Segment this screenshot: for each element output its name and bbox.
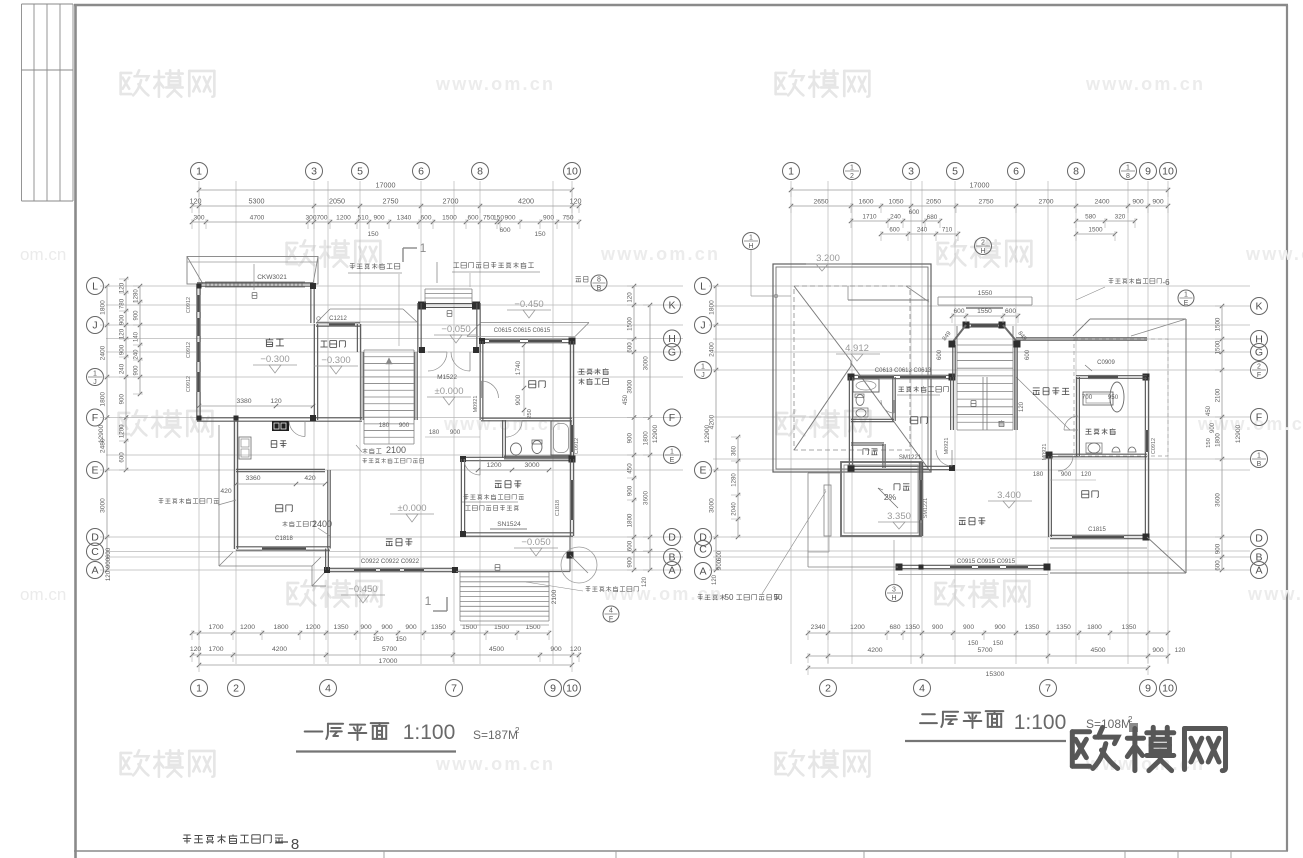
svg-text:900: 900 xyxy=(515,394,522,405)
svg-text:900: 900 xyxy=(627,557,634,568)
roof small circle marker xyxy=(774,294,778,298)
entry steps above porch xyxy=(425,288,472,290)
bedroom walls xyxy=(479,341,481,420)
svg-text:1800: 1800 xyxy=(100,300,107,315)
svg-text:9: 9 xyxy=(1145,166,1151,178)
stairwell2 rail xyxy=(982,377,984,430)
svg-text:1710: 1710 xyxy=(862,214,877,221)
svg-text:3: 3 xyxy=(908,166,914,178)
svg-text:F: F xyxy=(669,412,675,424)
svg-text:900: 900 xyxy=(381,624,393,631)
svg-text:900: 900 xyxy=(119,314,126,325)
svg-text:E: E xyxy=(1184,300,1189,307)
svg-text:1: 1 xyxy=(701,364,705,371)
svg-text:E: E xyxy=(670,457,675,464)
living2 bottom wall windows C0915 xyxy=(898,564,1048,566)
svg-text:17000: 17000 xyxy=(376,181,396,190)
svg-text:L: L xyxy=(92,281,98,293)
dim col left1 left plan xyxy=(106,286,108,570)
drain note text xyxy=(698,594,726,600)
svg-text:2400: 2400 xyxy=(312,519,332,529)
svg-text:120: 120 xyxy=(570,646,582,653)
svg-text:M0921: M0921 xyxy=(944,438,950,455)
bathroom A door arc xyxy=(506,421,522,437)
svg-text:1600: 1600 xyxy=(858,199,873,206)
svg-text:1800: 1800 xyxy=(643,431,650,446)
axis circles top left plan xyxy=(191,163,208,180)
svg-text:M1522: M1522 xyxy=(437,374,457,381)
svg-text:700: 700 xyxy=(1082,394,1093,401)
svg-text:3380: 3380 xyxy=(236,398,251,405)
pavilion roof hips xyxy=(794,286,851,361)
svg-text:360: 360 xyxy=(732,445,738,456)
svg-text:12900: 12900 xyxy=(1235,425,1242,444)
balcony slope arrow xyxy=(878,488,898,508)
svg-text:1: 1 xyxy=(670,449,674,456)
porch down label xyxy=(447,311,452,317)
svg-text:SM1221: SM1221 xyxy=(923,498,929,519)
svg-text:900: 900 xyxy=(504,215,515,222)
svg-text:2: 2 xyxy=(850,173,854,180)
svg-text:S=108M: S=108M xyxy=(1086,717,1131,731)
title second floor plan xyxy=(920,714,937,723)
svg-text:900: 900 xyxy=(119,394,126,405)
svg-text:4200: 4200 xyxy=(518,197,534,206)
svg-text:10: 10 xyxy=(566,683,578,695)
drain pipe xyxy=(824,485,831,536)
bathroomC note top xyxy=(1109,278,1162,283)
bedroom3 walls xyxy=(1048,456,1050,537)
circle 4/F callout xyxy=(603,606,619,622)
bedroom2 door M0921 xyxy=(936,450,952,466)
grid vertical lines right plan xyxy=(790,181,792,664)
svg-text:3: 3 xyxy=(311,166,317,178)
activity label xyxy=(495,480,522,488)
bedroom top wall with windows xyxy=(481,338,573,340)
activity room walls xyxy=(460,459,462,536)
svg-text:8: 8 xyxy=(597,277,601,284)
svg-text:F: F xyxy=(1257,372,1261,379)
terrace roofline above worker room xyxy=(317,309,330,322)
svg-text:2400: 2400 xyxy=(100,345,107,360)
svg-text:3.200: 3.200 xyxy=(816,253,840,264)
note brick steps 2 xyxy=(362,458,423,463)
svg-text:900: 900 xyxy=(543,215,554,222)
svg-text:D: D xyxy=(668,532,676,544)
svg-text:900: 900 xyxy=(134,310,140,321)
svg-text:900: 900 xyxy=(1215,543,1222,554)
svg-text:2040: 2040 xyxy=(732,502,738,516)
svg-text:1050: 1050 xyxy=(888,199,903,206)
outdoor stair label down xyxy=(495,565,500,571)
svg-text:140: 140 xyxy=(134,331,140,342)
svg-text:600: 600 xyxy=(627,342,634,353)
dim row1 left plan xyxy=(192,205,579,207)
bay window top walls xyxy=(966,323,1003,325)
balcony label xyxy=(894,484,909,490)
svg-text:300: 300 xyxy=(193,215,204,222)
svg-text:10: 10 xyxy=(1162,166,1174,178)
svg-text:A: A xyxy=(91,565,98,577)
stair arrow xyxy=(388,358,390,444)
svg-text:om.cn: om.cn xyxy=(20,245,66,264)
svg-text:2%: 2% xyxy=(884,492,897,502)
svg-text:1280: 1280 xyxy=(732,473,738,487)
bathroomC label xyxy=(1085,428,1115,434)
terrace left edge right plan xyxy=(807,473,809,567)
svg-text:1350: 1350 xyxy=(905,624,920,631)
down arrow below garage roof xyxy=(253,264,255,290)
svg-text:H: H xyxy=(980,248,985,255)
watermark row5 xyxy=(121,750,149,775)
axis circles bottom left plan xyxy=(191,680,208,697)
dim col left2 right plan xyxy=(737,437,739,537)
terrace roof over bedroom band xyxy=(467,323,481,337)
svg-text:K: K xyxy=(1255,301,1262,313)
activity door arc xyxy=(464,459,480,475)
dim col left2 left plan xyxy=(125,279,127,470)
note hole1 text xyxy=(218,500,236,505)
svg-text:L: L xyxy=(700,281,706,293)
bedroom3 window C1815 xyxy=(1072,534,1124,536)
svg-text:4200: 4200 xyxy=(272,646,287,653)
dim total 17000 left plan xyxy=(199,189,572,191)
svg-text:S=187M: S=187M xyxy=(473,728,518,742)
svg-text:17000: 17000 xyxy=(970,181,990,190)
svg-text:150: 150 xyxy=(493,215,504,222)
svg-text:320: 320 xyxy=(1115,214,1126,221)
svg-text:2: 2 xyxy=(1128,715,1133,724)
border frame left table xyxy=(21,4,23,201)
dim col right1 left plan xyxy=(633,286,635,570)
svg-text:750: 750 xyxy=(562,215,573,222)
svg-text:1200: 1200 xyxy=(240,624,255,631)
svg-text:5300: 5300 xyxy=(249,197,265,206)
grid horizontal lines right plan xyxy=(713,285,1250,287)
terrace below bedroom3 xyxy=(1050,547,1147,549)
svg-text:1700: 1700 xyxy=(208,624,223,631)
worker room top wall and C1212 window xyxy=(316,322,360,324)
living room label xyxy=(386,538,413,546)
eave line below living2 xyxy=(898,574,1048,576)
svg-text:5: 5 xyxy=(952,166,958,178)
svg-text:2: 2 xyxy=(233,683,239,695)
svg-text:950: 950 xyxy=(1108,394,1119,401)
dim row2 left plan xyxy=(192,221,579,223)
svg-text:240: 240 xyxy=(134,349,140,360)
svg-text:180: 180 xyxy=(1033,471,1044,478)
dim total 17000 right plan xyxy=(791,189,1168,191)
dim col right right plan xyxy=(1221,306,1223,570)
svg-text:1:100: 1:100 xyxy=(403,721,456,744)
svg-text:600: 600 xyxy=(1005,308,1016,315)
svg-text:1500: 1500 xyxy=(442,215,457,222)
svg-text:6: 6 xyxy=(1013,166,1019,178)
svg-text:1: 1 xyxy=(425,594,432,608)
stairwell2 treads xyxy=(957,344,1013,346)
detail circle bottom-right xyxy=(561,547,597,583)
bay side walls down xyxy=(952,345,954,377)
hall void label xyxy=(1033,387,1070,395)
svg-text:J: J xyxy=(701,372,705,379)
svg-text:J: J xyxy=(93,379,97,386)
bedroom label xyxy=(529,381,546,388)
svg-text:600: 600 xyxy=(1215,560,1222,571)
svg-text:900: 900 xyxy=(627,485,634,496)
svg-text:1: 1 xyxy=(850,165,854,172)
svg-text:900: 900 xyxy=(105,557,112,568)
terrace eave below dining xyxy=(218,425,220,566)
garage left windows C0912 xyxy=(196,295,198,312)
axis circles bottom right plan xyxy=(820,680,837,697)
dim col right2 left plan xyxy=(649,305,651,570)
bedroom2 walls xyxy=(848,377,850,469)
svg-text:K: K xyxy=(668,300,675,312)
svg-text:2050: 2050 xyxy=(926,199,941,206)
svg-text:900: 900 xyxy=(1061,471,1072,478)
svg-text:C: C xyxy=(699,544,707,556)
drain callout line xyxy=(762,491,826,594)
note hole4 2100 xyxy=(363,448,382,453)
svg-text:900: 900 xyxy=(134,365,140,376)
dim col left3 left plan xyxy=(139,286,141,394)
svg-text:2: 2 xyxy=(515,726,520,735)
bathroomB toilet xyxy=(856,395,864,406)
dim bottom row3 right plan xyxy=(808,667,1148,669)
svg-text:1340: 1340 xyxy=(397,215,412,222)
svg-text:710: 710 xyxy=(942,227,953,234)
svg-text:−0.450: −0.450 xyxy=(514,299,543,310)
svg-text:2: 2 xyxy=(1257,364,1261,371)
svg-text:5: 5 xyxy=(357,166,363,178)
upper wall right section xyxy=(1016,337,1147,339)
svg-text:9: 9 xyxy=(1145,683,1151,695)
svg-text:120: 120 xyxy=(119,328,126,339)
svg-text:www.om.cn: www.om.cn xyxy=(600,244,720,264)
svg-text:E: E xyxy=(699,465,706,477)
svg-text:1200: 1200 xyxy=(486,462,501,469)
svg-text:J: J xyxy=(92,320,97,332)
svg-text:4500: 4500 xyxy=(1090,647,1105,654)
svg-text:1: 1 xyxy=(196,166,202,178)
svg-text:D: D xyxy=(1255,533,1263,545)
svg-text:1: 1 xyxy=(196,683,202,695)
svg-text:4500: 4500 xyxy=(489,646,504,653)
svg-text:5700: 5700 xyxy=(382,646,397,653)
svg-text:150: 150 xyxy=(367,231,378,238)
svg-text:1550: 1550 xyxy=(977,308,992,315)
stairwell2 labels xyxy=(971,401,976,407)
svg-text:180: 180 xyxy=(379,422,390,429)
svg-text:1800: 1800 xyxy=(1215,433,1222,447)
svg-text:8: 8 xyxy=(1126,173,1130,180)
svg-text:C0615 C0615 C0615: C0615 C0615 C0615 xyxy=(494,328,551,334)
svg-text:H: H xyxy=(748,243,753,250)
svg-text:1200: 1200 xyxy=(336,215,351,222)
outdoor stair bottom xyxy=(460,571,549,573)
svg-text:3000: 3000 xyxy=(524,462,539,469)
svg-text:www.om.cn: www.om.cn xyxy=(1245,244,1303,264)
svg-text:C1815: C1815 xyxy=(1088,527,1106,533)
svg-text:9: 9 xyxy=(550,683,556,695)
svg-text:700: 700 xyxy=(316,215,327,222)
dim row bottom1 left plan xyxy=(192,632,549,634)
dim row bottom3 left plan xyxy=(199,664,572,666)
svg-text:3600: 3600 xyxy=(1215,493,1222,507)
svg-text:600: 600 xyxy=(105,547,112,558)
svg-text:250: 250 xyxy=(527,409,533,419)
svg-text:1800: 1800 xyxy=(709,300,716,315)
svg-text:4.912: 4.912 xyxy=(845,343,869,354)
bathroom A toilet xyxy=(532,441,542,454)
svg-text:C1818: C1818 xyxy=(555,500,561,516)
svg-text:1500: 1500 xyxy=(1088,227,1103,234)
svg-text:2400: 2400 xyxy=(709,342,716,357)
bathroomB walls xyxy=(892,377,894,421)
activity room bottom wall xyxy=(461,532,573,534)
bedroom2 label xyxy=(911,417,928,424)
eave diag left corner xyxy=(219,552,233,566)
garage room label xyxy=(266,338,284,346)
svg-text:150: 150 xyxy=(1206,438,1212,448)
bathroomC tub oval xyxy=(1110,382,1124,412)
svg-text:1550: 1550 xyxy=(978,290,993,297)
svg-text:1800: 1800 xyxy=(1087,624,1102,631)
svg-text:3600: 3600 xyxy=(643,490,650,505)
stair diagonal callout xyxy=(1016,377,1070,430)
svg-text:10: 10 xyxy=(1162,683,1174,695)
svg-text:1800: 1800 xyxy=(627,513,634,527)
svg-text:120: 120 xyxy=(270,398,282,405)
svg-text:450: 450 xyxy=(1206,405,1212,416)
svg-text:−0.300: −0.300 xyxy=(260,354,289,365)
bathroomC window C0909 xyxy=(1088,374,1118,376)
note hole3 2400 xyxy=(283,521,315,526)
svg-text:900: 900 xyxy=(627,433,634,444)
bathroom A sink xyxy=(511,443,522,455)
svg-text:4700: 4700 xyxy=(250,215,265,222)
svg-text:1500: 1500 xyxy=(1215,340,1222,354)
axis circles right side right plan xyxy=(1251,298,1268,315)
bottom wall garage/kitchen xyxy=(197,417,362,419)
svg-text:900: 900 xyxy=(399,422,410,429)
svg-text:240: 240 xyxy=(119,363,126,374)
svg-text:2650: 2650 xyxy=(813,199,828,206)
dining right wall to living xyxy=(327,470,329,549)
svg-text:1350: 1350 xyxy=(1122,624,1137,631)
svg-text:120: 120 xyxy=(642,576,648,587)
svg-text:2400: 2400 xyxy=(1094,199,1109,206)
svg-text:510: 510 xyxy=(357,215,368,222)
svg-text:900: 900 xyxy=(1132,199,1144,206)
living room bottom wall with windows xyxy=(326,567,456,569)
pavilion roof inner dashed eave xyxy=(794,286,910,450)
eave corner step bottom-left living xyxy=(311,566,313,586)
svg-text:1350: 1350 xyxy=(333,624,348,631)
svg-text:600: 600 xyxy=(467,215,478,222)
svg-text:600: 600 xyxy=(889,227,900,234)
svg-text:www.om.cn: www.om.cn xyxy=(435,74,555,94)
svg-text:4: 4 xyxy=(325,683,331,695)
svg-text:900: 900 xyxy=(373,215,384,222)
roof bay notch top-right xyxy=(848,299,929,301)
drain note and circle 8/B xyxy=(576,277,588,283)
svg-text:7: 7 xyxy=(1045,683,1051,695)
svg-text:900: 900 xyxy=(550,646,562,653)
entry door M1522 xyxy=(428,352,447,371)
dim row bottom2 left plan xyxy=(192,654,579,656)
svg-text:900: 900 xyxy=(450,429,461,436)
svg-text:±0.000: ±0.000 xyxy=(435,386,464,397)
callout circle 1/H left xyxy=(743,233,760,250)
dining room walls xyxy=(236,546,330,548)
entry porch walls xyxy=(421,303,477,305)
svg-text:180: 180 xyxy=(429,429,440,436)
svg-text:12900: 12900 xyxy=(98,425,105,444)
bedroom3 door xyxy=(1058,456,1073,471)
svg-text:M0921: M0921 xyxy=(473,396,479,413)
dining label xyxy=(276,505,293,512)
title first underline xyxy=(296,750,456,752)
stair dims 1500s xyxy=(460,624,549,626)
bathroomC cabinet xyxy=(1083,392,1113,405)
svg-text:F: F xyxy=(92,412,98,424)
stair hall walls xyxy=(360,352,362,420)
grid vertical lines left plan xyxy=(198,181,200,664)
svg-text:600: 600 xyxy=(1025,349,1031,360)
svg-text:C0912: C0912 xyxy=(186,376,192,392)
svg-text:1280: 1280 xyxy=(134,289,140,303)
svg-text:2050: 2050 xyxy=(329,197,345,206)
svg-text:120: 120 xyxy=(1081,471,1092,478)
svg-text:1200: 1200 xyxy=(850,624,865,631)
svg-text:4200: 4200 xyxy=(867,647,882,654)
bathroomB tub xyxy=(853,379,879,392)
svg-text:900: 900 xyxy=(1210,422,1216,433)
activity room top wall xyxy=(461,456,573,458)
dim row2 right plan xyxy=(851,220,940,222)
svg-text:1: 1 xyxy=(1257,453,1261,460)
svg-text:3000: 3000 xyxy=(643,356,650,371)
svg-text:1: 1 xyxy=(749,235,753,242)
svg-text:C0912: C0912 xyxy=(574,438,580,454)
bay dims xyxy=(952,315,1018,317)
bathroom A walls xyxy=(502,420,504,458)
svg-text:120: 120 xyxy=(712,574,718,585)
svg-text:1350: 1350 xyxy=(1056,624,1071,631)
svg-text:120: 120 xyxy=(190,197,202,206)
svg-text:420: 420 xyxy=(220,488,232,495)
svg-text:450: 450 xyxy=(627,463,634,474)
bathroomB door arc xyxy=(881,400,894,413)
kitchen sink xyxy=(239,437,251,459)
outdoor stair callout xyxy=(526,582,583,591)
bathroomB sink xyxy=(856,409,866,417)
svg-text:1: 1 xyxy=(1184,292,1188,299)
svg-text:2: 2 xyxy=(825,683,831,695)
dim row1 right plan xyxy=(791,205,1168,207)
indoor stair treads xyxy=(364,349,414,351)
bathroomC wall bottom xyxy=(1048,453,1147,455)
kitchen label xyxy=(271,440,286,447)
svg-text:D: D xyxy=(699,532,707,544)
svg-text:C1818: C1818 xyxy=(275,536,293,542)
title first floor plan xyxy=(305,727,323,737)
svg-text:1200: 1200 xyxy=(305,624,320,631)
svg-text:2750: 2750 xyxy=(383,197,399,206)
bottom strip ticks xyxy=(383,851,385,858)
svg-text:900: 900 xyxy=(932,624,943,631)
